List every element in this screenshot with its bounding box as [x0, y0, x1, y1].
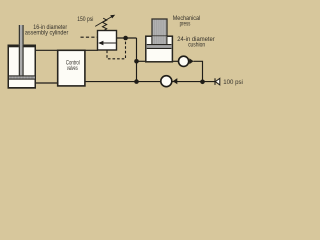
- node: junction dot1 at reducing valve outlet: [123, 36, 128, 41]
- wire: lower line from CV2 to vent: [173, 81, 216, 83]
- label: 24-in diameter cushion: [177, 36, 215, 49]
- reducing valve spring: [103, 18, 107, 30]
- svg-text:cushion: cushion: [188, 42, 205, 49]
- assembly cylinder piston: [9, 75, 35, 79]
- wire: control valves top-right to reducing valve bottom-left: [84, 49, 98, 51]
- svg-text:assembly cylinder: assembly cylinder: [25, 30, 69, 37]
- label: Control valves: [66, 60, 80, 73]
- wire: cushion feed from trunk: [137, 60, 147, 62]
- check valve CV1 (circle): [179, 56, 189, 66]
- check valve CV2 (circle): [161, 76, 172, 87]
- cushion cylinder piston: [147, 44, 172, 49]
- pilot dashed line: reducing valve drain loop: [107, 40, 126, 59]
- wire: lower line from control valves to check valve CV2: [84, 81, 161, 83]
- assembly cylinder rod: [19, 25, 24, 76]
- node: junction dot4 CV1 drop/lower line: [200, 80, 205, 85]
- wire: reducing valve outlet: [117, 37, 137, 39]
- wire: CV1 to corner then down to lower line: [193, 61, 202, 82]
- check valve CV2 poppet (left-pointing): [173, 78, 178, 84]
- control valves box: [58, 50, 85, 86]
- wire: assembly cylinder top port to control valves: [35, 49, 58, 51]
- cushion cylinder body: [146, 36, 173, 62]
- assembly cylinder rod inside body: [19, 44, 24, 75]
- pressure reducing valve V1 body: [98, 31, 117, 51]
- label: Mechanical press: [173, 15, 200, 27]
- node: junction dot3 trunk/lower line: [134, 79, 139, 84]
- reducing valve adjustment arrow: [95, 15, 115, 27]
- svg-text:100 psi: 100 psi: [223, 79, 243, 86]
- svg-text:valves: valves: [67, 65, 78, 72]
- wire: vertical trunk: [136, 38, 138, 82]
- svg-text:150 psi: 150 psi: [77, 16, 93, 23]
- check valve CV1 poppet (right-pointing): [189, 58, 193, 64]
- svg-text:press: press: [180, 21, 191, 28]
- vent valve seat line: [214, 78, 216, 85]
- mechanical press ram: [152, 19, 167, 45]
- wire: cushion to check valve CV1: [172, 60, 178, 62]
- node: junction dot2 trunk/cushion feed: [134, 59, 139, 64]
- reducing valve internal flow arrow: [98, 41, 116, 45]
- assembly cylinder body: [8, 45, 37, 89]
- vent valve triangle: [215, 78, 220, 85]
- label: 16-in diameter assembly cylinder: [25, 24, 69, 36]
- wire: assembly cylinder bottom port to control valves: [35, 82, 58, 84]
- pilot dashed line: reducing valve inlet (left): [81, 36, 98, 38]
